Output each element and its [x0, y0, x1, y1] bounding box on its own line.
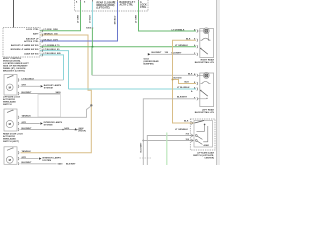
actuator B wire BLK/WHT with splice S410 — [21, 129, 83, 131]
tan bus right side — [173, 40, 197, 123]
ajar switch internal horizontals — [197, 130, 205, 132]
svg-text:BLK/WHT: BLK/WHT — [172, 52, 183, 54]
wire BLK into BCM from top — [13, 0, 15, 28]
svg-text:LOCK CTRL: LOCK CTRL — [26, 29, 39, 31]
splice S306 — [92, 27, 94, 29]
scrollbar track right edge — [217, 0, 220, 165]
BCM pin brackets — [41, 29, 44, 56]
off page arrow BLK/WHT to right lamp — [148, 53, 151, 55]
svg-text:ACTR B CTRL: ACTR B CTRL — [24, 40, 39, 43]
ground ref text G302 — [144, 59, 160, 66]
wire LT BLU/BLK: BCM ajar sw to lock actuator pin 1 — [40, 55, 64, 80]
svg-text:1979: 1979 — [53, 39, 59, 41]
svg-text:DK BLU: DK BLU — [44, 39, 53, 41]
wire LT BLU long horizontal to left rear lamp — [69, 88, 197, 90]
wire TAN: BCM batt down to rear lock actuator — [21, 35, 92, 153]
svg-text:SWITCH: SWITCH — [3, 104, 12, 106]
actuator A name text — [3, 95, 21, 106]
svg-text:LT BLU/BLK: LT BLU/BLK — [177, 87, 190, 89]
switch blade box1 — [200, 48, 201, 49]
svg-text:ACTR CTRL: ACTR CTRL — [120, 3, 134, 6]
actuator A pin brackets — [17, 79, 20, 96]
svg-text:LT BLU: LT BLU — [90, 15, 92, 23]
junction dot on ground wire — [142, 140, 144, 142]
gray stub pin row4 box2 — [198, 98, 207, 100]
ajar switch name text — [193, 151, 214, 159]
svg-text:SYSTEM: SYSTEM — [42, 160, 51, 162]
svg-text:SYSTEM: SYSTEM — [44, 125, 53, 127]
rear closure module dashed box (top) — [75, 0, 149, 11]
svg-text:TAN/BLK: TAN/BLK — [44, 32, 54, 35]
wire LT BLU/BLK: BCM lock sw sig, down to long cyan — [40, 51, 69, 89]
actuator C wire GRY to interior lamps arrow — [21, 158, 39, 160]
right rear lamp assembly box — [200, 29, 214, 58]
splice on tan wire — [90, 104, 92, 106]
liftgate lock actuator A box — [4, 75, 17, 96]
wire gray lamp feed horizontal y75.3 — [92, 74, 196, 76]
ajar switch internal vertical from blade contact — [204, 125, 206, 132]
BCM name text below box — [3, 58, 29, 72]
svg-text:DK BLU: DK BLU — [115, 15, 117, 24]
actuator B wire GRY to interior lamps arrow — [21, 123, 40, 125]
junction dot — [91, 46, 93, 48]
box1 pin letters — [194, 30, 196, 55]
svg-text:BLK/WHT: BLK/WHT — [66, 164, 76, 165]
ajar box pin brackets — [190, 122, 193, 143]
link pin to bulb box2 — [198, 74, 204, 76]
svg-text:S306: S306 — [86, 28, 92, 30]
svg-text:AJAR: AJAR — [204, 144, 210, 147]
actuator A wire GRY to broken lamps arrow — [21, 85, 41, 87]
switch blade box2 — [200, 90, 201, 91]
actuator B wire labels — [22, 115, 33, 130]
svg-text:BACKUP LP HARN SW SIG: BACKUP LP HARN SW SIG — [11, 44, 39, 47]
switch hump box2 — [201, 82, 211, 84]
top module far right text — [140, 1, 147, 9]
actuator B motor circle — [6, 120, 13, 127]
wire from splice down-left to actuator B — [21, 106, 92, 118]
BCM pin labels inside — [11, 29, 40, 55]
svg-text:BLK: BLK — [188, 74, 193, 76]
ajar switch contact 1 — [195, 135, 197, 137]
actuator C lever — [7, 148, 13, 151]
pin ticks top box — [81, 0, 139, 2]
right box1 pin brackets — [196, 30, 199, 56]
ajar switch internal hook right — [203, 126, 208, 142]
svg-text:BROKEN LP HARN SW SIG: BROKEN LP HARN SW SIG — [11, 48, 39, 51]
svg-text:S409: S409 — [58, 163, 64, 165]
svg-text:(ROOF): (ROOF) — [79, 131, 87, 133]
wire LT GRN: BCM lock ctrl to top module — [40, 2, 81, 31]
empty note box — [38, 95, 61, 118]
vertical link inside box1 — [208, 34, 210, 41]
rear lock actuator C box — [4, 147, 17, 165]
svg-text:BLK: BLK — [185, 82, 190, 84]
svg-text:TAN/BLK: TAN/BLK — [22, 150, 32, 153]
actuator B pin brackets — [17, 116, 20, 131]
svg-text:SWITCH (LEFT): SWITCH (LEFT) — [3, 141, 19, 143]
svg-text:LT GRN: LT GRN — [78, 14, 80, 23]
top module label text — [97, 1, 116, 9]
actuator A wire BLK/WHT to splice — [21, 93, 61, 95]
svg-text:BLK/WHT: BLK/WHT — [177, 97, 188, 99]
svg-text:AJAR SW SIG: AJAR SW SIG — [24, 52, 39, 55]
actuator C wire labels — [22, 150, 33, 164]
wire LT GRN/BLK long horizontal — [40, 46, 196, 48]
svg-text:LT GRN: LT GRN — [136, 14, 138, 23]
svg-text:S410: S410 — [64, 127, 70, 130]
top module right text — [120, 1, 134, 7]
svg-text:1850: 1850 — [53, 29, 59, 31]
switch hump top box1 — [201, 38, 211, 40]
svg-text:BATT: BATT — [33, 32, 39, 35]
actuator C wire BLK/WHT bottom — [21, 163, 57, 165]
svg-text:LT BLU/BLK: LT BLU/BLK — [22, 78, 35, 80]
gray lead into actuator A pin 1 — [21, 79, 64, 81]
highlighted pale green wire down — [166, 133, 168, 166]
ajar switch blade top — [195, 121, 205, 124]
svg-text:CTRL: CTRL — [140, 7, 147, 9]
svg-text:LT BLU/BLK: LT BLU/BLK — [44, 53, 57, 55]
box2 pin letters — [194, 74, 196, 100]
svg-text:CENTER): CENTER) — [204, 157, 214, 159]
svg-text:(LIFTGATE): (LIFTGATE) — [97, 6, 110, 9]
wire DK BLU: BCM to top module — [40, 2, 118, 41]
ajar switch contact 2 — [195, 140, 197, 142]
svg-text:BACKUP/TAIL LPS: BACKUP/TAIL LPS — [195, 111, 215, 114]
actuator C pin brackets — [17, 151, 20, 165]
wire LT BLU upper segment from top module — [91, 2, 93, 28]
inline connector dashes — [140, 157, 152, 159]
right lamp name text — [195, 58, 215, 64]
svg-text:LT BLU/BLK: LT BLU/BLK — [44, 49, 57, 51]
svg-text:SYSTEM: SYSTEM — [44, 88, 53, 90]
left rear lamp assembly box — [200, 73, 214, 107]
actuator B lever — [7, 110, 13, 113]
actuator A motor circle — [7, 84, 14, 91]
BCM wire color labels — [44, 29, 62, 55]
svg-text:LT GRN/BLK: LT GRN/BLK — [175, 129, 188, 131]
svg-text:BUMPER): BUMPER) — [144, 64, 154, 66]
svg-text:BLK/WHT: BLK/WHT — [140, 142, 142, 153]
left lamp name text — [195, 108, 215, 114]
wire from ajar switch row2 to junction — [143, 140, 194, 142]
actuator A lever — [7, 76, 13, 79]
lamp bulb left rear — [203, 73, 209, 79]
svg-text:LT GRN/BLK: LT GRN/BLK — [175, 45, 188, 47]
svg-text:S409: S409 — [56, 91, 62, 94]
ajar switch inner box — [194, 121, 213, 148]
svg-text:BACKUP/TAIL LPS: BACKUP/TAIL LPS — [195, 61, 215, 64]
wire BLK/WHT from left lamp down to bottom edge — [143, 99, 196, 165]
lamp bulb right rear — [203, 28, 209, 34]
tan branch to left rear lamp (jog) — [173, 80, 197, 84]
green branch down to lamp feed — [91, 47, 93, 76]
tan junction dot — [172, 79, 174, 81]
wire LT GRN/BLK: top module to right rear lamp — [139, 2, 197, 31]
box2 pin brackets — [196, 74, 199, 101]
svg-text:BRACKET (CONT'D): BRACKET (CONT'D) — [3, 70, 25, 73]
svg-text:BLK: BLK — [186, 38, 191, 40]
actuator B name text — [3, 132, 23, 143]
actuator A wire labels — [22, 78, 35, 94]
link pin to bulb — [198, 30, 204, 32]
svg-text:LT GRN: LT GRN — [44, 29, 52, 31]
svg-text:LT GRN/BLK: LT GRN/BLK — [172, 29, 185, 31]
wire LT GRN lower segment to long green — [91, 28, 93, 47]
svg-text:BLK/WHT: BLK/WHT — [152, 52, 163, 54]
actuator C motor circle — [6, 156, 13, 163]
top pin numbers — [76, 1, 136, 4]
svg-text:LT GRN/BLK: LT GRN/BLK — [44, 45, 57, 47]
rear lock actuator B box — [4, 109, 17, 131]
BCM dashed box — [3, 28, 40, 58]
wire from ajar switch row1 down to bottom edge — [147, 136, 194, 166]
svg-text:TAN/BLK: TAN/BLK — [22, 115, 32, 118]
liftgate ajar switch dashed box — [190, 119, 215, 150]
svg-text:BLK: BLK — [184, 120, 189, 122]
